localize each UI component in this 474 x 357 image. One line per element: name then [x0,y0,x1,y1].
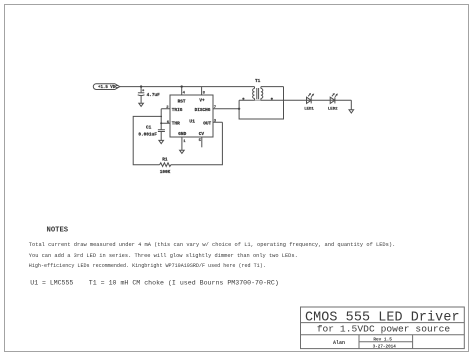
svg-text:LED1: LED1 [304,108,314,112]
svg-text:NOTES: NOTES [47,227,69,235]
svg-text:OUT: OUT [203,122,211,127]
svg-text:GND: GND [178,132,186,137]
svg-text:CV: CV [199,132,205,137]
svg-text:DISCHG: DISCHG [195,108,211,113]
svg-text:T1 = 10 mH CM choke (I used Bo: T1 = 10 mH CM choke (I used Bourns PM370… [89,279,279,286]
svg-text:R1: R1 [162,158,168,163]
svg-text:THR: THR [172,122,180,127]
svg-text:0.001uF: 0.001uF [138,133,157,138]
svg-text:You can add a 3rd LED in serie: You can add a 3rd LED in series. Three w… [29,252,298,259]
svg-text:C1: C1 [146,125,152,130]
svg-text:U1 = LMC555: U1 = LMC555 [30,279,73,286]
svg-text:U1: U1 [189,119,195,125]
svg-text:Rev 1.5: Rev 1.5 [373,337,392,342]
svg-text:High-efficiency LEDs recommend: High-efficiency LEDs recommended. Kingbr… [29,262,266,269]
svg-text:for 1.5VDC power source: for 1.5VDC power source [317,323,451,334]
svg-text:3-27-2014: 3-27-2014 [373,344,397,349]
svg-text:RST: RST [178,100,186,105]
svg-text:T1: T1 [255,79,261,84]
svg-text:Alan: Alan [333,340,345,346]
svg-text:TRIG: TRIG [172,108,183,113]
svg-text:LED2: LED2 [328,108,338,112]
svg-text:Total current draw measured un: Total current draw measured under 4 mA (… [29,241,396,248]
svg-text:+1.5 VDC: +1.5 VDC [98,86,118,90]
svg-text:4.7uF: 4.7uF [147,93,161,98]
svg-text:100K: 100K [160,170,171,175]
svg-text:V+: V+ [199,98,205,103]
